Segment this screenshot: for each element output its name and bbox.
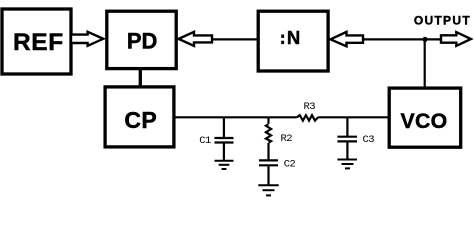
svg-text:C3: C3 bbox=[363, 134, 375, 146]
svg-text:R2: R2 bbox=[281, 133, 293, 145]
svg-text:N: N bbox=[287, 27, 300, 48]
svg-text:R3: R3 bbox=[304, 101, 316, 113]
svg-text:OUTPUT: OUTPUT bbox=[414, 13, 471, 27]
svg-text:C2: C2 bbox=[284, 159, 296, 171]
svg-text:REF: REF bbox=[13, 29, 64, 56]
svg-text:C1: C1 bbox=[199, 135, 211, 147]
svg-text:VCO: VCO bbox=[400, 109, 447, 133]
svg-text:PD: PD bbox=[127, 29, 158, 54]
svg-text:CP: CP bbox=[124, 107, 157, 133]
